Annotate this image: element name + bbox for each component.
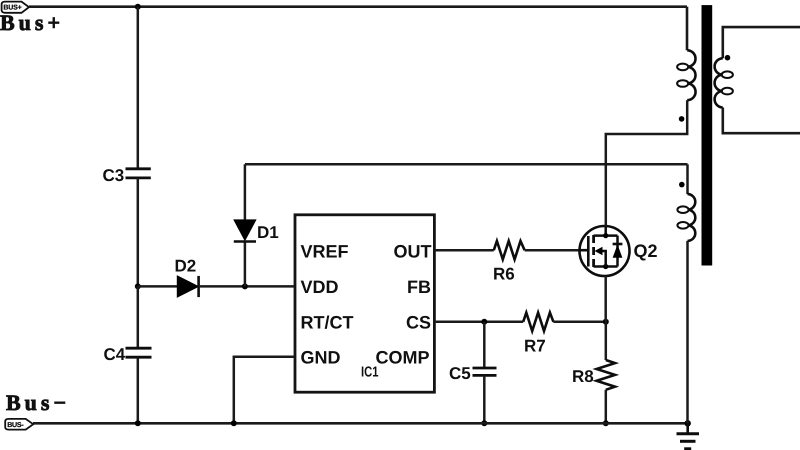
svg-text:BUS-: BUS- <box>7 422 24 429</box>
junction C5 / rail <box>481 420 487 426</box>
svg-text:D2: D2 <box>175 257 197 276</box>
polarity dot secondary <box>725 55 731 61</box>
junction C4 / rail <box>135 420 141 426</box>
svg-text:RT/CT: RT/CT <box>301 313 354 333</box>
wire D1 cathode down <box>244 242 247 287</box>
svg-text:VDD: VDD <box>301 277 339 297</box>
svg-text:R6: R6 <box>493 265 515 284</box>
transformer T1 auxiliary winding <box>677 194 695 241</box>
wire D2 cathode to IC VDD pin <box>199 285 295 288</box>
svg-text:C5: C5 <box>449 364 471 383</box>
wire C4 top branch <box>137 286 140 348</box>
junction VDD line left <box>135 283 141 289</box>
svg-text:D1: D1 <box>257 223 279 242</box>
net tag BUS- <box>5 419 33 430</box>
svg-text:CS: CS <box>406 313 431 333</box>
wire aux winding top drop <box>686 164 689 194</box>
net tag BUS+ <box>2 2 29 13</box>
transformer T1 primary winding <box>677 50 695 100</box>
junction source node <box>603 319 609 325</box>
wire R8 bottom to rail <box>605 390 608 424</box>
svg-text:COMP: COMP <box>376 348 430 368</box>
polarity dot primary <box>679 116 685 122</box>
diode D1 <box>234 220 256 242</box>
resistor R8 <box>597 360 615 390</box>
junction R8 / rail <box>603 420 609 426</box>
svg-text:IC1: IC1 <box>361 365 379 381</box>
svg-text:OUT: OUT <box>394 242 432 262</box>
wire D1 anode up <box>244 164 247 220</box>
svg-text:R8: R8 <box>572 367 594 386</box>
op-amp IC1 box <box>295 215 434 392</box>
svg-text:GND: GND <box>301 348 341 368</box>
wire aux winding bottom to ground rail <box>686 241 689 423</box>
wire R7 to source node <box>553 321 605 324</box>
svg-text:Bus−: Bus− <box>6 390 70 415</box>
wire C4 bottom to rail <box>137 357 140 423</box>
ground <box>677 420 700 449</box>
junction CS / C5 <box>481 319 487 325</box>
wire GND pin to rail <box>234 357 295 424</box>
wire primary top feed <box>686 7 689 51</box>
polarity dot auxiliary <box>679 182 685 188</box>
wire secondary bottom <box>723 108 800 134</box>
svg-text:C3: C3 <box>103 166 125 185</box>
svg-text:FB: FB <box>407 277 431 297</box>
resistor R7 <box>523 313 553 331</box>
resistor R6 <box>494 241 525 259</box>
svg-text:C4: C4 <box>104 345 126 364</box>
wire CS pin to R7 <box>434 321 523 324</box>
junction D1 / VDD line <box>242 283 248 289</box>
transistor Q2 <box>580 226 630 276</box>
wire OUT pin to R6 <box>434 249 493 252</box>
wire aux winding feed <box>245 163 688 166</box>
wire top rail <box>29 5 687 8</box>
wire C5 bottom to rail <box>483 375 486 423</box>
svg-text:R7: R7 <box>524 337 546 356</box>
svg-text:Q2: Q2 <box>634 241 658 261</box>
wire VDD line to D2 anode <box>138 285 178 288</box>
junction GND branch / rail <box>231 420 237 426</box>
wire Q2 source down <box>604 276 607 322</box>
diode D2 <box>177 276 198 297</box>
capacitor C4 <box>126 348 152 357</box>
svg-text:VREF: VREF <box>301 242 349 262</box>
capacitor C3 <box>126 169 151 178</box>
wire C3 bottom to VDD line <box>137 178 140 287</box>
wire secondary top <box>723 27 800 58</box>
wire bottom rail <box>33 422 688 425</box>
wire R6 to Q2 gate <box>525 249 580 252</box>
junction top rail / C3 branch <box>135 4 141 10</box>
wire C3 top branch <box>137 7 140 169</box>
transformer T1 secondary winding <box>715 58 733 107</box>
wire source node to R8 <box>605 322 608 360</box>
wire primary bottom to drain <box>606 100 687 226</box>
wire C5 top branch <box>483 322 486 368</box>
transformer T1 core <box>702 5 713 265</box>
capacitor C5 <box>473 368 497 375</box>
svg-text:Bus+: Bus+ <box>0 10 64 35</box>
